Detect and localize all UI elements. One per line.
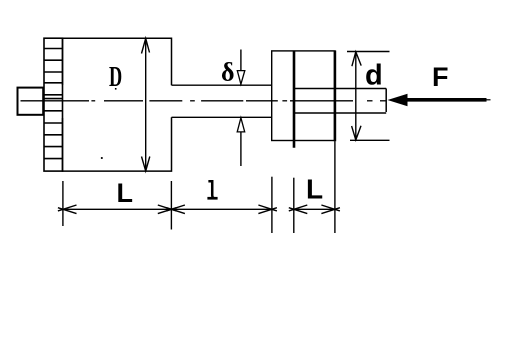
dimension d extension line top	[347, 51, 390, 53]
extension line below disc right edge	[334, 141, 336, 233]
large shaft section D (big rectangle)	[63, 38, 172, 171]
right shaft end edge	[385, 89, 387, 113]
extension line below disc inner line	[293, 178, 295, 233]
svg-text:d: d	[365, 59, 383, 91]
extension line below step	[170, 181, 172, 230]
label d	[365, 59, 383, 91]
extension line below disc left edge	[271, 177, 273, 233]
middle shaft l bottom edge	[172, 116, 272, 118]
label L left	[117, 178, 134, 208]
dimension line l middle	[166, 205, 277, 214]
label l middle	[206, 177, 217, 207]
right shaft d bottom edge	[294, 112, 386, 114]
dimension line L right	[289, 205, 340, 214]
svg-text:l: l	[206, 177, 217, 207]
middle shaft l (thin neck) top edge	[172, 84, 272, 86]
dimension line d (vertical with arrows)	[352, 52, 362, 141]
svg-text:L: L	[306, 174, 323, 205]
fixed support block (left small rectangle)	[18, 88, 44, 115]
extension line below big-rect left edge	[62, 181, 64, 226]
disc / collar outer rectangle	[272, 51, 335, 141]
wall hatching strip	[44, 38, 63, 171]
label delta	[221, 58, 235, 87]
right shaft d top edge	[294, 88, 386, 90]
dimension line D (vertical with arrows)	[142, 38, 150, 171]
label D	[109, 61, 122, 93]
label L right	[306, 174, 323, 205]
dimension line L left	[58, 205, 176, 214]
centerline (dash-dot axis)	[21, 100, 387, 102]
dimension delta upper pointer	[237, 50, 245, 86]
disc right thick edge	[334, 51, 337, 142]
svg-text:F: F	[432, 62, 449, 92]
disc inner thick line	[293, 51, 296, 148]
dimension delta lower pointer	[237, 118, 245, 166]
svg-text:δ: δ	[221, 58, 235, 87]
svg-text:L: L	[117, 178, 134, 208]
stray speck lower left of big rectangle	[101, 157, 103, 159]
dimension d extension line bottom	[350, 139, 390, 141]
stray speck below label D	[115, 88, 117, 90]
force arrow F	[388, 94, 491, 106]
label F	[432, 62, 449, 92]
